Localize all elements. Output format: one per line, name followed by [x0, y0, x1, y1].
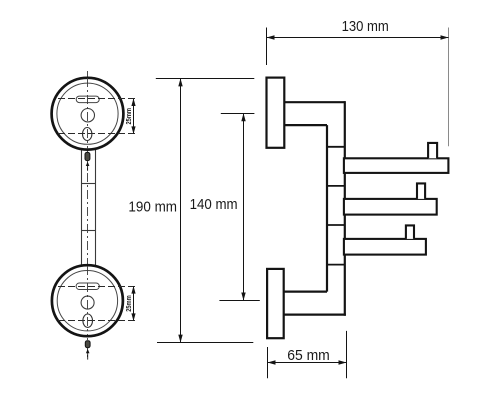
swivel hook arm 1 [344, 158, 449, 173]
side view: post collar divider 2 [327, 185, 345, 187]
svg-text:25mm: 25mm [124, 108, 133, 125]
side view: post collar divider 4 [327, 264, 345, 266]
top rosette dashed hole centerline upper [58, 98, 137, 100]
top mounting pin [85, 152, 90, 160]
top middle hole [81, 109, 94, 122]
svg-text:130 mm: 130 mm [342, 18, 389, 35]
side view: post left edge [326, 125, 328, 292]
bottom rosette outer circle [52, 265, 123, 336]
swivel hook arm 2 [344, 199, 437, 215]
bottom slot hole [76, 283, 99, 290]
bar between rosettes [82, 150, 96, 266]
bottom rosette dashed hole centerline upper [58, 286, 137, 288]
side view: top bracket arm top edge [284, 101, 345, 103]
130 mm dimension [267, 18, 449, 146]
top centerline re-draw over circle [87, 78, 89, 149]
top rosette inner circle [57, 83, 118, 144]
vertical centerline of front view [87, 71, 89, 360]
side view: post right edge [344, 101, 346, 316]
hook tab 2 [417, 183, 425, 199]
side view: bottom bracket arm top edge [284, 291, 327, 293]
25mm dimension line (top rosette) [124, 98, 136, 134]
side view: top wall plate [267, 78, 285, 148]
top rosette dashed hole centerline lower [58, 133, 137, 135]
svg-text:65 mm: 65 mm [287, 347, 330, 364]
bottom rosette dashed hole centerline lower [58, 320, 137, 322]
side view: post collar divider 3 [327, 224, 345, 226]
side view: bottom wall plate [267, 269, 284, 338]
swivel hook arm 3 [344, 239, 426, 255]
bottom rosette inner circle [57, 271, 117, 331]
top rosette outer circle [52, 78, 124, 150]
bottom middle hole [81, 296, 94, 309]
25mm dimension line (bottom rosette) [124, 286, 136, 321]
top small oval hole [83, 128, 92, 141]
65 mm dimension [268, 331, 347, 378]
arrow below top pin [86, 162, 90, 171]
svg-text:190 mm: 190 mm [128, 199, 177, 216]
bottom mounting pin [85, 341, 90, 348]
side view: post collar divider 1 [327, 146, 345, 148]
svg-text:140 mm: 140 mm [190, 196, 238, 213]
side view: top bracket arm bottom edge [284, 124, 327, 126]
140 mm dimension [190, 113, 260, 300]
svg-text:25mm: 25mm [124, 295, 133, 312]
arrow below bottom pin [86, 349, 90, 360]
190 mm dimension [128, 78, 254, 342]
side view: bottom bracket arm bottom edge [284, 314, 346, 316]
bottom small oval hole [83, 314, 93, 327]
top slot hole [76, 96, 99, 103]
bottom centerline re-draw over circle [87, 266, 89, 335]
hook tab 3 [406, 225, 414, 239]
hook tab 1 [428, 143, 437, 158]
